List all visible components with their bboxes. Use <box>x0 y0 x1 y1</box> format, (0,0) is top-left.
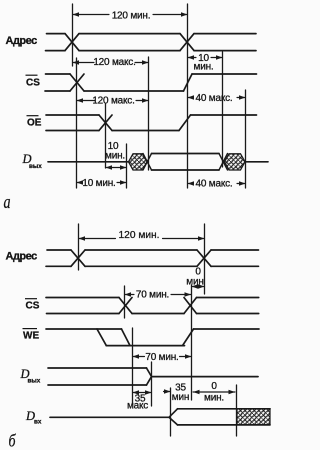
dim ext line x78 (addr change 1 b) <box>78 224 80 270</box>
svg-text:мин: мин <box>172 392 189 403</box>
hatched blob 1 (data transition) <box>129 154 148 170</box>
svg-text:макс: макс <box>127 401 148 412</box>
wire CS b <box>46 298 259 314</box>
dim ext line x72 (addr change 1) <box>72 4 74 66</box>
svg-text:0: 0 <box>211 381 217 392</box>
dimension 10 min (addr hold) <box>188 55 223 59</box>
hatched blob 2 (data off transition) <box>225 154 246 170</box>
dimension 120 min (cycle time a) <box>73 12 188 16</box>
dimension 40 maks (CS high to data off) <box>188 95 246 99</box>
hatched region D-in valid b <box>237 409 270 425</box>
svg-text:120 макс.: 120 макс. <box>92 96 134 107</box>
dimension 40 maks (addr to data off bottom) <box>188 181 246 185</box>
dim ext line x151.5 (D-out off b) <box>151 362 153 406</box>
wire D-out tail a <box>245 161 268 163</box>
svg-text:120 мин.: 120 мин. <box>112 11 151 22</box>
dimension 120 min b <box>79 236 205 240</box>
wire address bus b <box>46 250 259 266</box>
svg-text:Адрес: Адрес <box>6 251 38 263</box>
dimension 35 maks (WE to D-out off b) <box>133 390 152 394</box>
dimension 0 min (D-in hold b) <box>193 390 235 394</box>
svg-text:б: б <box>9 432 17 450</box>
dim ext line x191.2 (CS/WE rise b) <box>191 285 193 400</box>
wire CS a <box>45 74 257 91</box>
dimension 10 min (CS to data bottom) <box>77 180 127 184</box>
svg-text:а: а <box>4 191 11 213</box>
svg-text:вых: вых <box>29 163 42 170</box>
svg-text:мин: мин <box>186 277 203 288</box>
svg-text:OE: OE <box>27 118 42 129</box>
dim ext line x126.5 (data invalid start) <box>126 144 128 188</box>
svg-text:40 макс.: 40 макс. <box>195 179 232 190</box>
svg-text:WE: WE <box>23 331 39 342</box>
svg-text:70 мин.: 70 мин. <box>136 290 169 301</box>
svg-text:120 макс.: 120 макс. <box>93 57 135 68</box>
svg-text:мин.: мин. <box>204 392 224 403</box>
dim ext line x76.5 (CS fall) <box>76 58 78 188</box>
dimension 70 min (WE width b) <box>133 354 192 358</box>
svg-text:CS: CS <box>26 301 40 312</box>
svg-text:вх: вх <box>34 419 42 426</box>
dimension 0 min (addr hold after CS b) <box>192 284 205 288</box>
dimension 10 min (OE to data) small double arrow <box>106 165 127 169</box>
svg-text:мин.: мин. <box>194 61 214 72</box>
dim ext line x170 (D-in valid b) <box>170 388 172 436</box>
svg-text:CS: CS <box>26 77 40 88</box>
dim ext line x148 (data valid start) <box>148 57 150 170</box>
dim ext line x245.5 (data off end) <box>245 90 247 188</box>
svg-text:10 мин.: 10 мин. <box>82 178 115 189</box>
dim ext line x132 (WE fall b) <box>132 328 134 404</box>
wire D-out a baseline <box>48 161 129 163</box>
dim ext line x236.6 (D-in hold b) <box>236 385 238 436</box>
dimension 120 maks (addr to data) <box>73 60 149 64</box>
wire D-in b <box>50 409 270 425</box>
wire OE a <box>46 115 257 131</box>
dim ext line x223 (data hold end) <box>222 52 224 167</box>
wire address bus a <box>46 34 257 51</box>
wire WE b <box>46 329 259 346</box>
dim ext line x204.5 (addr change 2 b) <box>204 224 206 294</box>
dimension 35 min (D-in setup b) outside arrows <box>164 389 171 393</box>
dimension 70 min (CS width b) <box>125 292 192 296</box>
wire D-out valid bus a <box>152 154 220 171</box>
wire D-out close X a <box>219 154 228 171</box>
wire D-out b <box>48 368 258 385</box>
svg-text:70 мин.: 70 мин. <box>145 352 178 363</box>
wire D-out open X after blob1 <box>143 154 152 171</box>
svg-text:мин.: мин. <box>105 150 125 161</box>
dim ext line x106 (OE fall) <box>105 104 107 168</box>
dim ext line x124.5 (CS fall b) <box>124 286 126 318</box>
dimension 120 maks (CS to data) <box>77 98 149 102</box>
svg-text:40 макс.: 40 макс. <box>195 93 232 104</box>
svg-text:вых: вых <box>28 378 41 385</box>
svg-text:120 мин.: 120 мин. <box>119 230 160 241</box>
dim ext line x187 (addr change 2) <box>187 4 189 188</box>
svg-text:Адрес: Адрес <box>6 35 38 47</box>
